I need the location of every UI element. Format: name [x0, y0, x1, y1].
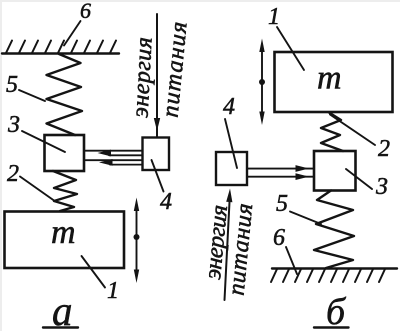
caption б (right) with underline: [314, 291, 349, 331]
label 6 (right) with leader: [273, 225, 297, 274]
label 1 (right) with leader: [268, 4, 304, 70]
double-line arrow upper, box4 to box3 (right): [247, 165, 314, 172]
svg-text:3: 3: [7, 112, 20, 138]
svg-text:6: 6: [80, 0, 91, 23]
label 2 (left) with leader: [7, 161, 54, 201]
label 3 (left) with leader: [7, 112, 65, 152]
spring 5 (left): [47, 54, 83, 135]
svg-text:3: 3: [375, 174, 388, 200]
label 5 (right) with leader: [276, 191, 321, 224]
box 4 energy converter (left): [143, 138, 170, 171]
spring 5 (right): [314, 191, 354, 269]
double-line arrow upper, box4 to box3 (left): [86, 150, 143, 157]
energy supply arrow (right, pointing up into box 4): [225, 189, 233, 301]
box 3 vibration exciter (left): [45, 135, 85, 171]
svg-text:5: 5: [276, 191, 288, 217]
box 4 energy converter (right): [216, 152, 247, 185]
svg-text:m: m: [51, 214, 76, 251]
svg-text:m: m: [317, 60, 342, 97]
svg-text:1: 1: [107, 278, 119, 304]
label 4 (right) with leader: [223, 94, 237, 168]
svg-text:2: 2: [7, 161, 19, 187]
svg-text:4: 4: [160, 189, 172, 215]
label 5 (left) with leader: [6, 72, 45, 101]
label 6 (left) with leader: [64, 0, 91, 46]
mass box 1 (left): [5, 212, 125, 269]
motion double-headed arrow (right): [259, 39, 265, 126]
label 1 (left) with leader: [82, 256, 120, 304]
svg-text:1: 1: [268, 4, 280, 30]
motion double-headed arrow (left): [134, 198, 140, 284]
ceiling hatched support (left, item 6): [2, 41, 119, 54]
svg-text:энергия: энергия: [128, 36, 158, 118]
box 3 vibration exciter (right): [314, 151, 356, 191]
svg-text:5: 5: [6, 72, 18, 98]
label 3 (right) with leader: [346, 169, 388, 200]
ground hatched support (right, item 6): [271, 269, 397, 283]
caption а (left) with underline: [43, 289, 78, 331]
label 2 (right) with leader: [330, 115, 390, 163]
svg-text:2: 2: [378, 136, 390, 162]
label 4 (left) with leader: [152, 160, 173, 215]
mass box 1 (right): [275, 52, 393, 112]
svg-text:6: 6: [273, 225, 285, 251]
svg-text:б: б: [326, 291, 347, 331]
energy supply arrow (left, pointing down into box 4): [154, 14, 160, 137]
svg-text:питания: питания: [158, 19, 193, 118]
double-line arrow lower, box4 to box3 (left): [86, 159, 143, 166]
svg-text:а: а: [52, 289, 73, 331]
double-line arrow lower, box4 to box3 (right): [247, 173, 314, 180]
svg-text:4: 4: [223, 94, 235, 120]
spring 2 (left): [53, 171, 77, 211]
spring 2 (right): [321, 113, 343, 152]
